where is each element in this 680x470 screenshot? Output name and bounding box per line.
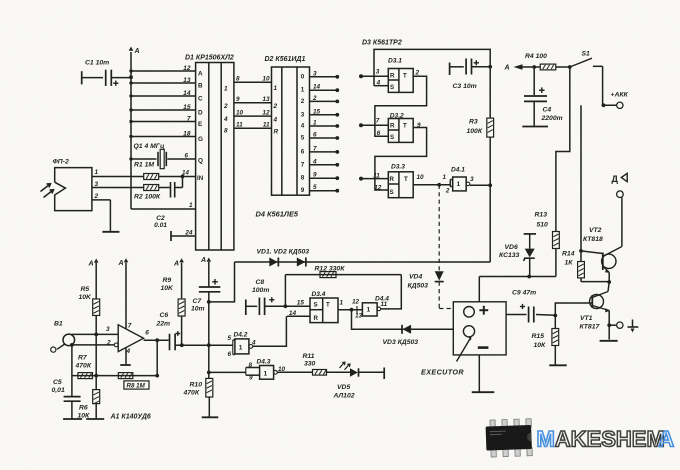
wires D1 to D2 (234, 81, 272, 83)
junction mic bottom (70, 343, 74, 347)
quartz crystal Q1 4MHz (131, 158, 157, 160)
junction output/R8 (155, 338, 159, 342)
junction R4/S1 (568, 65, 572, 69)
flip-flop D3.1 (388, 69, 413, 93)
resistor R14 1K (580, 251, 582, 262)
ground VT1 emitter (600, 340, 618, 342)
capacitor C1 (81, 71, 83, 84)
switch S1 (571, 58, 592, 66)
wire S1 to +AKK (603, 66, 617, 105)
wire opamp output (144, 339, 169, 341)
junction R8 right (155, 374, 159, 378)
wire VT2 collector to lamp (621, 198, 623, 247)
gate D4.3 (260, 366, 274, 380)
actuator EXECUTOR box (453, 302, 506, 355)
junction C7/VD leg (207, 300, 211, 304)
wire VD3 line (352, 310, 454, 330)
wire top line to D3.1 S input (374, 49, 490, 85)
junction VT2 base (579, 249, 583, 253)
wire mic bottom to pin2 (72, 344, 115, 346)
terminal output (617, 322, 623, 328)
op-amp A1 K140UD6 (118, 325, 143, 352)
executor terminal circle 2 (463, 326, 474, 337)
wire +AKK rail down to VT2 base (580, 105, 582, 251)
junction R5/mic line (94, 333, 98, 337)
junction C8/R12 (284, 304, 288, 308)
wire D3.1 S input (374, 85, 388, 87)
wire FP-2 pin2 to ground (92, 199, 111, 201)
wire D3.3 output 10 to D4.1 (413, 184, 450, 186)
junction C3/bus (488, 65, 492, 69)
capacitor C6 22m (169, 334, 171, 351)
wire D4.2 output to D3.4 R (253, 316, 287, 346)
wire D4.4 output up to R12 (381, 275, 402, 309)
junction VD6 (527, 275, 531, 279)
executor pointer arrow (457, 338, 471, 362)
wire D3.4 output (338, 309, 362, 311)
junction R9/C6 (180, 343, 184, 347)
pin 24 stub (170, 231, 172, 241)
ground executor (472, 391, 495, 393)
wire executor top rail (479, 276, 556, 278)
capacitor C4 2200m (533, 67, 535, 95)
junction dashed line start (437, 183, 441, 187)
diode VD2 KD503 (297, 258, 306, 267)
gate D4.1 (449, 180, 451, 187)
photodetector FP-2 box (55, 168, 92, 211)
resistor R11 330 (313, 370, 327, 376)
flip-flop D3.2 (388, 119, 413, 143)
resistor R12 330K (284, 275, 286, 307)
resistor R3 100K (487, 118, 494, 137)
executor plus (479, 309, 488, 311)
junction VT1 base / R15 (553, 314, 557, 318)
junction VT2 emitter (607, 280, 611, 284)
wire D4.3 output (277, 371, 312, 373)
wire IN line (92, 176, 144, 178)
resistor R6 10K (93, 390, 100, 404)
wire VD line left leg to C7 (209, 262, 234, 302)
capacitor C5 0.01 (71, 345, 73, 396)
chassis ground symbol (632, 320, 634, 327)
junction bus/C1 (129, 75, 133, 79)
junction R7/R5 vertical (94, 374, 98, 378)
capacitor C8 100m (245, 300, 247, 316)
resistor R15 10K (554, 316, 556, 329)
wire VT2 emitter to junction (608, 273, 610, 283)
IC D2 K561ID1 box (272, 67, 310, 195)
flip-flop D3.3 (388, 172, 413, 198)
junction +AKK (602, 103, 606, 107)
resistor R10 470K (206, 378, 213, 397)
gate D4.4 (356, 306, 358, 314)
executor terminal circle 1 (464, 307, 475, 318)
wire VT1 emitter down (608, 311, 610, 340)
wire VT2 emitter to VT1 collector (608, 282, 609, 292)
light arrows into FP-2 (41, 184, 51, 192)
wire D1 input lines A-G (131, 70, 196, 72)
diode VD4 KD503 (435, 271, 444, 280)
transistor VT1 KT817 (590, 295, 604, 309)
wire base to VT2 (581, 251, 603, 254)
logo chip icon (485, 419, 532, 458)
dashed control link vertical (438, 185, 440, 271)
dashed link to executor (438, 282, 440, 309)
junction R4/C4 (532, 65, 536, 69)
wire D3.3 R input (361, 178, 388, 180)
wire executor top (478, 277, 480, 302)
wire S1 junction down to R13 (556, 67, 570, 232)
wire C7 down to R10 (208, 345, 210, 378)
wire bus R3 down to VD line (489, 137, 491, 262)
resistor R4 100 (540, 64, 556, 70)
wire to D4.3 inputs (209, 371, 246, 373)
flip-flop D3.4 (310, 298, 338, 323)
capacitor C2 0.01 (170, 182, 172, 198)
wire VD1/VD2 line (235, 261, 491, 263)
wire D3.4 R input from D4.2 (287, 315, 310, 317)
LED VD5 AL102 (350, 368, 358, 376)
wire bus to D1 pin1 bottom (131, 208, 196, 210)
vertical bus right of D3 (489, 67, 491, 118)
resistor R7 470K (78, 373, 93, 379)
junction D3.4 out (350, 308, 354, 312)
wire D3.1 output 2 loop to D3.2 S (375, 76, 427, 136)
node A arrow above R5 (94, 259, 99, 263)
diode VD3 KD503 (401, 325, 403, 334)
wire signal line to D4.2 (182, 344, 233, 346)
wire R5 vertical to R6 (95, 334, 97, 389)
wire D3.2 R input (361, 124, 388, 126)
resistor R8 feedback (72, 375, 157, 377)
feedback vertical (156, 340, 158, 375)
wire D3.2 output 9 loop to D3.3 S (375, 128, 427, 191)
capacitor C3 10m (449, 63, 451, 76)
resistor R13 510 (553, 232, 560, 249)
gate D4.2 (232, 340, 234, 355)
label box R8 1M (124, 381, 149, 389)
junction D4.3 input line (207, 371, 211, 375)
scan noise overlay (0, 0, 1, 1)
capacitor C9 47m (506, 314, 526, 316)
node A arrow above C7 (207, 258, 212, 262)
transistor VT2 KT818 (602, 254, 616, 268)
wire D4.1 output to bus (470, 184, 490, 186)
ground FP-2 (102, 231, 119, 233)
node A bus (left vertical rail) (130, 52, 132, 209)
wire executor bottom to ground (478, 355, 480, 392)
wire mic to opamp pin3 (72, 333, 119, 335)
capacitor C7 10m (199, 286, 221, 288)
wire pin3 line (92, 187, 144, 189)
diode VD1 KD503 (269, 258, 278, 267)
resistor R5 10K (93, 299, 100, 316)
terminal lamp (617, 191, 624, 198)
node A arrow opamp pin7 (124, 258, 129, 262)
junction C7 line (207, 343, 211, 347)
D2 output lines 0-9 (310, 76, 337, 78)
wire opamp pin4 ground (125, 348, 127, 365)
junction emitter/terminal (607, 323, 611, 327)
wire to output terminal (609, 324, 616, 326)
wire VT1 base (555, 303, 592, 316)
wire D3.1 R input (361, 75, 388, 77)
resistor R9 10K (178, 299, 185, 316)
terminal +AKK (617, 102, 623, 108)
executor minus (478, 346, 489, 349)
IC D1 KR1506HL2 box (196, 63, 234, 251)
node A arrow above R9 (179, 258, 184, 262)
resistor R2 100K (144, 185, 159, 191)
zener diode VD6 KS133 (524, 233, 536, 235)
